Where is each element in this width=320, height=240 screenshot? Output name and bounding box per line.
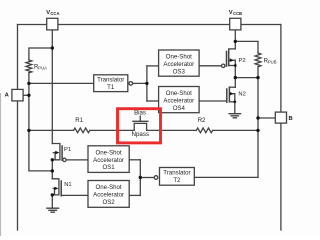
svg-text:R1: R1 (75, 118, 83, 124)
svg-text:CCB: CCB (233, 11, 242, 16)
junction RPUA top tap (51, 46, 54, 49)
bubble P2 gate (222, 64, 225, 67)
op box one-shot OS2 (88, 181, 129, 208)
junction P1 drain (51, 158, 54, 161)
wire RPUA bottom to A-node rail (29, 73, 52, 171)
wire P2/N2 midpoint to B-node rail (235, 77, 258, 79)
svg-text:B: B (289, 116, 293, 122)
svg-text:N1: N1 (64, 182, 71, 188)
wire feeder to OS4 input (147, 100, 159, 102)
svg-text:OS3: OS3 (173, 68, 186, 75)
wire feeder to OS3 input (147, 65, 159, 67)
svg-text:Accelerator: Accelerator (93, 157, 124, 164)
junction RPUB tap (234, 40, 237, 43)
wire T2 right connection (194, 176, 258, 178)
svg-text:CCA: CCA (50, 11, 59, 16)
junction N1 source (51, 193, 54, 196)
terminal VCCA (47, 18, 58, 30)
svg-text:OS1: OS1 (102, 164, 115, 171)
wire RPUA top tap (29, 48, 52, 60)
wire P1 gate bubble to OS1 input (66, 159, 88, 161)
terminal A (12, 89, 23, 101)
wire top supply rail (18, 24, 281, 26)
wire OS3/OS4 feeder vertical (146, 66, 148, 101)
svg-text:OS2: OS2 (102, 199, 115, 206)
transistor N1 body lead (53, 188, 55, 195)
wire feeder to T2 bubble (140, 177, 154, 179)
transistor P2 channel bar (228, 50, 230, 66)
svg-text:One-Shot: One-Shot (166, 54, 192, 61)
wire B-node vertical rail (257, 78, 259, 178)
svg-text:P2: P2 (239, 58, 246, 64)
junction T2 feeder (139, 176, 142, 179)
op box translator T2 (160, 168, 195, 186)
wire B-node to B pad (258, 117, 275, 119)
wire RPUB top tap (235, 41, 258, 53)
wire R1 row left segment (29, 129, 74, 131)
op box one-shot OS4 (159, 87, 200, 113)
svg-text:Npass: Npass (132, 131, 150, 138)
junction N2 source (233, 100, 236, 103)
svg-text:Accelerator: Accelerator (93, 192, 124, 199)
transistor Npass channel bump (134, 123, 146, 130)
ground N2 (229, 114, 241, 118)
wire VCCB drop (234, 30, 236, 49)
op box one-shot OS1 (88, 146, 129, 173)
wire N2 source to ground (234, 94, 236, 114)
wire OS1 output (129, 159, 140, 161)
svg-text:T2: T2 (173, 177, 181, 184)
wire P1 drain to N1 drain (51, 160, 53, 179)
transistor N2 gate bar (226, 89, 228, 102)
bubble P1 gate (63, 158, 66, 161)
wire A-port vertical rail (17, 25, 19, 231)
bubble T1 output (129, 82, 133, 86)
svg-text:Translator: Translator (97, 76, 124, 83)
svg-text:OS4: OS4 (173, 105, 186, 112)
svg-text:T1: T1 (107, 84, 115, 91)
transistor P2 gate bar (226, 52, 228, 67)
svg-text:Translator: Translator (163, 169, 190, 176)
junction P2 drain corner (234, 64, 237, 67)
wire OS2 output (129, 194, 140, 196)
transistor Npass gate plate (133, 120, 148, 122)
junction A-node to output rail (51, 169, 54, 172)
transistor N2 drain jog (229, 86, 235, 88)
terminal B (275, 112, 286, 123)
wire OS1/OS2 feeder vertical (139, 160, 141, 196)
transistor P2 body arrow (230, 58, 234, 62)
svg-text:R2: R2 (198, 118, 206, 124)
junction P2/N2 midpoint (234, 76, 237, 79)
transistor N1 gate bar (60, 181, 62, 196)
transistor P2 source jog (229, 48, 236, 50)
highlight red box around Npass (118, 109, 161, 143)
resistor R2 (196, 128, 212, 133)
resistor RPUA (26, 60, 32, 73)
junction T1 feeder (145, 82, 148, 85)
svg-text:Accelerator: Accelerator (163, 61, 194, 68)
svg-text:One-Shot: One-Shot (96, 184, 122, 191)
wire OS4 output to N2 gate (199, 100, 227, 102)
svg-text:PUB: PUB (268, 60, 277, 65)
wire N1 gate to OS2 input (61, 194, 88, 196)
terminal VCCB (230, 18, 241, 30)
transistor P1 source jog and channel (52, 144, 60, 160)
wire VCCA drop to P1 source (51, 30, 53, 144)
svg-text:A: A (5, 93, 10, 99)
junction RPUA bottom / T1 input (27, 82, 30, 85)
wire R2 to B-node rail (213, 129, 258, 131)
wire T1 input (29, 82, 94, 84)
op box one-shot OS3 (159, 50, 200, 76)
transistor P2 drain lead (229, 65, 236, 67)
bubble T2 input (154, 176, 158, 180)
svg-text:P1: P1 (64, 147, 71, 153)
wire Npass gate stub to Bias (139, 116, 141, 121)
wire N1 source to ground (51, 195, 53, 208)
svg-text:PUA: PUA (38, 66, 47, 71)
transistor N2 body lead (230, 93, 235, 95)
wire Npass to R2 (147, 129, 197, 131)
junction B stub (256, 116, 259, 119)
resistor R1 (74, 128, 90, 133)
ground N1 (47, 208, 59, 212)
wire RPUB bottom (257, 67, 259, 78)
transistor P1 gate bar (61, 146, 63, 160)
transistor P2 body lead (229, 59, 235, 61)
transistor N2 source lead (229, 101, 234, 103)
junction RPUB bottom (256, 76, 259, 79)
transistor N2 body arrow (230, 92, 234, 96)
svg-text:Accelerator: Accelerator (163, 98, 194, 105)
transistor N2 channel bar (228, 87, 230, 102)
transistor N1 body arrow (54, 187, 58, 191)
junction R1 left (27, 129, 30, 132)
stray figure-edge line at far left (0, 93, 2, 236)
wire T1 output to feeder (133, 82, 147, 84)
svg-text:One-Shot: One-Shot (166, 90, 192, 97)
transistor P1 body arrow (55, 151, 59, 155)
svg-text:N2: N2 (238, 92, 245, 98)
wire A pad stub (23, 94, 29, 96)
wire OS3 output to P2 gate bubble (199, 65, 221, 67)
transistor P1 body lead (53, 153, 55, 160)
wire R1 to Npass (90, 129, 134, 131)
wire B-port vertical rail (280, 25, 282, 231)
transistor N1 drain jog and channel (52, 179, 59, 195)
op box translator T1 (94, 75, 128, 92)
resistor RPUB (255, 53, 261, 67)
wire P2 drain to midpoint (234, 60, 236, 87)
junction A pad stub (27, 94, 30, 97)
svg-text:One-Shot: One-Shot (96, 149, 122, 156)
svg-text:Bias: Bias (134, 109, 146, 116)
junction R2 right (256, 129, 259, 132)
